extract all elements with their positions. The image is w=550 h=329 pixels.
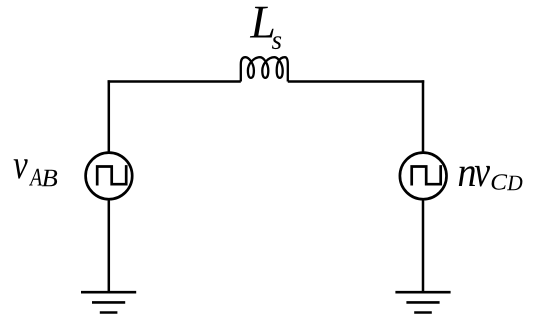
wire left vertical upper: [108, 80, 111, 153]
wire right vertical lower: [422, 200, 425, 293]
label vAB sub B: [42, 170, 57, 187]
label nvCD sub C: [492, 174, 508, 189]
label nvCD n: [459, 166, 475, 186]
voltage source nvCD circle: [400, 153, 447, 200]
voltage source vAB square-wave symbol: [97, 167, 126, 185]
label L sub s: [272, 36, 281, 49]
label nvCD sub D: [507, 176, 522, 191]
label vAB sub A: [29, 169, 42, 186]
voltage source nvCD square-wave symbol: [412, 167, 441, 185]
wire top-left horizontal: [108, 80, 241, 83]
ground left: [81, 292, 136, 312]
inductor Ls: [241, 57, 288, 81]
ground right: [395, 292, 450, 312]
voltage source vAB circle: [86, 153, 133, 200]
label vAB v: [14, 159, 28, 178]
wire left vertical lower: [108, 200, 111, 293]
label L: [250, 7, 274, 38]
wire top-right horizontal: [288, 80, 424, 83]
wire right vertical upper: [422, 80, 425, 153]
label nvCD v: [475, 166, 490, 187]
